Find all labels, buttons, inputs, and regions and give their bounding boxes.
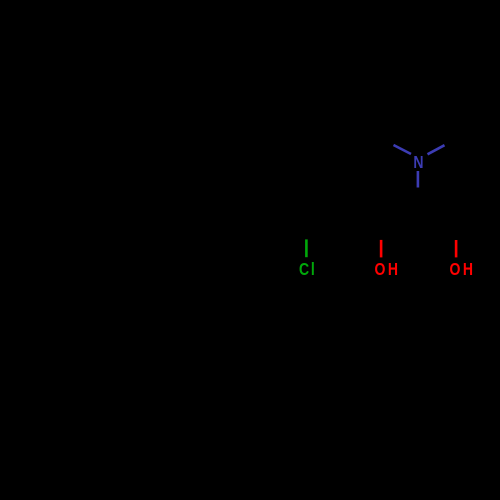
wire bond C-OH right (red half-bond above second OH) xyxy=(455,240,458,257)
atom O2 label (OH) xyxy=(450,260,461,280)
svg-text:C: C xyxy=(299,260,309,280)
wire bond N-CH (blue half-bond below N) xyxy=(417,171,420,188)
wire bond N-CH2 (blue half-bond up-left of N) xyxy=(394,145,412,154)
svg-text:O: O xyxy=(450,260,461,280)
svg-text:O: O xyxy=(375,260,386,280)
svg-text:l: l xyxy=(311,260,315,280)
wire bond C-OH left (red half-bond above first OH) xyxy=(380,240,383,258)
wire bond N-CH3 (blue half-bond up-right of N) xyxy=(428,145,445,154)
svg-text:N: N xyxy=(413,152,423,172)
svg-text:H: H xyxy=(463,260,473,280)
wire bond C-Cl (green half-bond above Cl) xyxy=(305,239,308,257)
atom O1 label (OH) xyxy=(375,260,386,280)
atom Cl1 label xyxy=(299,260,309,280)
atom N1 label xyxy=(413,152,423,172)
svg-text:H: H xyxy=(388,260,398,280)
